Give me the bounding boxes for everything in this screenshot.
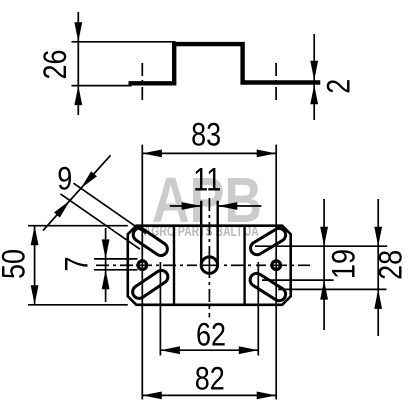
dimension line 9 [43,155,111,230]
bracket profile section [129,44,321,83]
arrow 28 top [374,227,382,247]
arrow 9 upper [81,171,97,188]
svg-text:9: 9 [57,161,72,197]
svg-text:7: 7 [59,256,95,271]
plate outline [128,226,291,305]
arrow 50 bottom [31,285,39,305]
dimension line 83 [142,152,276,154]
extension line 7 bottom [94,269,138,271]
arrow 19 top [320,227,328,247]
arrow 50 top [31,226,39,246]
dimension line 62 [160,349,258,351]
arrow 7 bottom [102,270,110,290]
slot upper-right [251,228,286,254]
arrow 26 bottom [74,86,82,106]
profile hole centerline left [141,63,143,101]
arrow 83 right [257,150,277,158]
arrow 62 left [160,346,180,354]
extension line right hole center [275,145,277,400]
profile bottom-face extension line [72,85,132,87]
svg-text:28: 28 [373,250,409,280]
arrow 7 top [102,239,110,259]
arrow 2 top [310,61,318,81]
small hole left [138,261,147,270]
dimension line 26 [77,12,79,115]
extension line 28 bottom [278,288,387,290]
dimension line 28 [377,199,379,336]
dimension line 82 [142,394,276,396]
horizontal centerline [96,264,109,266]
svg-text:82: 82 [195,361,225,397]
extension line 7 top [94,258,138,260]
svg-text:50: 50 [0,249,32,279]
dimension line 11 right [218,205,262,207]
arrow 28 bottom [374,289,382,309]
extension line 50 top [28,225,128,227]
dimension line 50 [34,226,36,305]
arrow 2 bottom [310,85,318,105]
svg-text:83: 83 [191,117,221,153]
slot upper-left [133,228,167,255]
center hole [201,257,217,273]
small hole right [272,261,281,270]
arrow 9 lower [54,201,70,218]
profile top-face extension line [72,41,176,43]
extension line 50 bottom [28,304,128,306]
arrow 83 left [142,150,162,158]
arrow 26 top [74,22,82,42]
extension line slots top [255,245,387,247]
arrow 11 right [218,202,238,210]
dimension line 2 [313,34,315,120]
center slot side left [200,201,202,265]
arrow 82 right [257,392,277,400]
arrow 62 right [239,346,258,354]
vertical centerline [208,198,210,211]
arrow 19 bottom [320,280,328,300]
extension line 9 upper [74,183,147,233]
svg-text:11: 11 [193,162,221,198]
extension line 9 lower [61,194,141,249]
extension line 62 right [257,262,259,356]
svg-text:19: 19 [326,249,362,279]
extension line 62 left [159,262,161,356]
profile hole centerline right [275,63,277,101]
extension line 19 bottom [262,279,334,281]
dimension line 19 [323,199,325,330]
dimension line 7 [105,228,107,302]
slot lower-left [133,270,168,298]
slot lower-right [250,273,286,300]
svg-text:62: 62 [196,317,226,353]
arrow 11 left [182,202,202,210]
center slot side right [216,201,218,265]
fold line right [243,226,245,305]
dimension line 11 left [170,205,201,207]
svg-text:2: 2 [321,79,357,94]
extension line left hole center [141,145,143,400]
fold line left [173,226,175,305]
arrow 82 left [142,392,162,400]
svg-text:26: 26 [38,49,74,79]
